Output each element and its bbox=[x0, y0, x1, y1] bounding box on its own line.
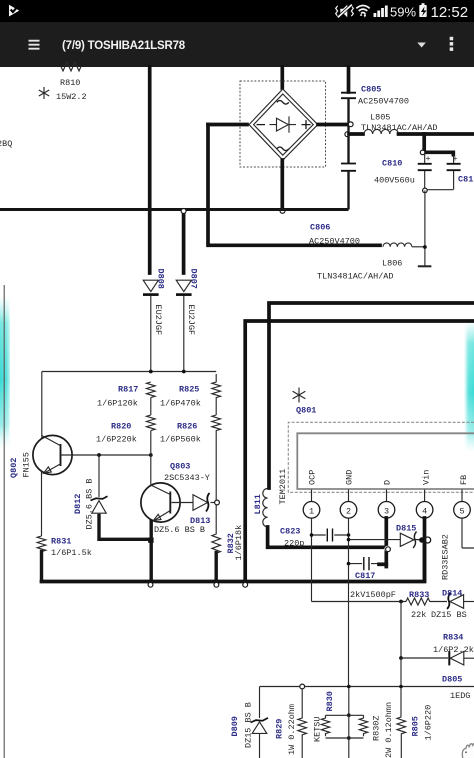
svg-text:D: D bbox=[383, 480, 393, 485]
IC Q801 body TEM2011 bbox=[297, 433, 474, 489]
node circle bridge bottom bbox=[280, 208, 285, 213]
wire: long horizontal rail y209.5 bbox=[0, 208, 349, 211]
svg-text:D809: D809 bbox=[230, 716, 240, 736]
node R834 rail bbox=[399, 656, 403, 660]
resistor R810 bbox=[56, 62, 87, 102]
terminal bar bbox=[418, 265, 432, 267]
svg-text:+: + bbox=[426, 154, 431, 164]
wire: pin1 down and right bbox=[312, 518, 407, 601]
node circle below C810 bbox=[423, 188, 428, 193]
pin circle 2 bbox=[340, 502, 357, 519]
capacitor C823 bbox=[280, 527, 350, 549]
svg-text:R820: R820 bbox=[111, 422, 131, 432]
svg-text:D812: D812 bbox=[73, 494, 83, 514]
svg-text:R830Z: R830Z bbox=[372, 715, 382, 741]
inductor L806 bbox=[317, 243, 427, 282]
asterisk Q801 bbox=[293, 388, 306, 403]
diode D812 zener bbox=[73, 455, 150, 539]
asterisk near R810 bbox=[39, 87, 49, 99]
node circle L805 left junction bbox=[345, 132, 350, 137]
svg-text:KETSU: KETSU bbox=[313, 716, 323, 742]
svg-text:D807: D807 bbox=[188, 269, 198, 289]
transistor Q802 bbox=[9, 435, 72, 536]
wire: box1 thick bend (L811 feed) bbox=[269, 303, 474, 488]
diode D815 zener bbox=[347, 524, 422, 549]
svg-text:59%: 59% bbox=[390, 4, 416, 19]
svg-text:FN155: FN155 bbox=[22, 452, 32, 478]
wire: pin3 thick bbox=[384, 518, 388, 567]
wire: box2 thick bend (Vin bus) bbox=[245, 321, 474, 580]
svg-text:C81: C81 bbox=[458, 175, 473, 185]
svg-text:AC250V4700: AC250V4700 bbox=[309, 237, 360, 247]
svg-text:22k: 22k bbox=[411, 610, 426, 620]
resistor R826 bbox=[160, 415, 221, 500]
svg-text:C817: C817 bbox=[355, 571, 375, 581]
svg-text:R834: R834 bbox=[443, 633, 463, 643]
svg-text:2SC5343-Y: 2SC5343-Y bbox=[164, 473, 210, 483]
capacitor C811 bbox=[425, 154, 474, 190]
capacitor C806 bbox=[309, 125, 360, 247]
diode on R834 rail bbox=[401, 633, 474, 666]
resistor R825 bbox=[160, 374, 221, 415]
resistor R817 bbox=[97, 382, 155, 415]
svg-text:(7/9) TOSHIBA21LSR78: (7/9) TOSHIBA21LSR78 bbox=[62, 40, 186, 52]
wire: thick drop + bar to C810/C811 bbox=[424, 134, 453, 152]
page border left bbox=[3, 285, 5, 758]
bridge internal diode bbox=[270, 116, 297, 132]
svg-text:RD33ESAB2: RD33ESAB2 bbox=[441, 534, 451, 580]
svg-text:1/6P18k: 1/6P18k bbox=[234, 525, 244, 561]
svg-text:C810: C810 bbox=[382, 159, 402, 169]
node circle bus/box2 wire bbox=[243, 582, 248, 587]
wire: thick bus y581.5 bbox=[42, 543, 425, 582]
wire: bridge left thick bbox=[208, 123, 247, 127]
svg-text:2BQ: 2BQ bbox=[0, 139, 12, 149]
svg-text:L806: L806 bbox=[382, 259, 402, 269]
wire: pin4 thick down bbox=[423, 518, 427, 581]
svg-text:1W 0.22ohm: 1W 0.22ohm bbox=[287, 704, 297, 755]
highlight streak left bbox=[0, 296, 10, 448]
hand cursor icon bbox=[462, 743, 474, 758]
diode D807 bbox=[176, 213, 198, 372]
svg-text:DZ5.6 BS B: DZ5.6 BS B bbox=[154, 525, 205, 535]
wire: L811 to pin3 thick bbox=[268, 527, 386, 547]
svg-text:R825: R825 bbox=[179, 385, 199, 395]
wire: R805 column bbox=[400, 658, 402, 717]
node D812 top bbox=[97, 453, 101, 457]
diode D808 bbox=[143, 269, 165, 372]
svg-text:FB: FB bbox=[459, 475, 469, 485]
wire: thick L down from bridge-left to C806 rail bbox=[208, 125, 380, 246]
node dot D815/pin4 bbox=[419, 537, 424, 542]
transistor Q803 bbox=[141, 455, 210, 581]
svg-text:DZ15 BS B: DZ15 BS B bbox=[244, 702, 254, 748]
svg-text:D814: D814 bbox=[442, 589, 462, 599]
svg-text:3: 3 bbox=[384, 506, 389, 516]
resistor R832 bbox=[212, 505, 244, 581]
bridge polarity marks bbox=[257, 101, 311, 151]
svg-text:220p: 220p bbox=[284, 539, 304, 549]
svg-text:1/6P470k: 1/6P470k bbox=[160, 399, 201, 409]
svg-text:OCP: OCP bbox=[308, 470, 318, 485]
bridge rectifier dashed box bbox=[240, 81, 326, 167]
node circle D813/R832 bbox=[215, 500, 220, 505]
svg-text:Q802: Q802 bbox=[9, 458, 19, 478]
wire: Q802 base rail y455 bbox=[62, 454, 151, 456]
STATUSBAR bbox=[0, 0, 474, 22]
IC Q801 dotted outline bbox=[288, 422, 474, 492]
svg-text:1EDG: 1EDG bbox=[450, 691, 470, 701]
highlight streak right bbox=[464, 320, 474, 452]
node circle D815/pin4 bbox=[425, 537, 431, 543]
svg-text:R830: R830 bbox=[325, 691, 335, 711]
resistor R831 bbox=[37, 536, 92, 581]
node D807/rail bbox=[182, 370, 186, 374]
svg-text:2W 0.12ohmn: 2W 0.12ohmn bbox=[384, 702, 394, 758]
svg-text:Vin: Vin bbox=[422, 470, 432, 485]
svg-text:1/6P120k: 1/6P120k bbox=[97, 399, 138, 409]
svg-text:1/6P2.2k: 1/6P2.2k bbox=[433, 645, 474, 655]
svg-text:Q803: Q803 bbox=[170, 462, 190, 472]
svg-text:D815: D815 bbox=[396, 524, 416, 534]
wire: thick vertical to D808 bbox=[148, 67, 152, 273]
svg-text:1/6P560k: 1/6P560k bbox=[160, 435, 201, 445]
svg-text:C805: C805 bbox=[361, 85, 381, 95]
junction square dot bbox=[148, 538, 153, 543]
capacitor C805 bbox=[341, 85, 409, 125]
svg-text:TLN3481AC/AH/AD: TLN3481AC/AH/AD bbox=[361, 123, 438, 133]
pin stubs bbox=[312, 490, 463, 502]
wire: pin2 down bbox=[348, 518, 350, 686]
diode D809 zener bbox=[230, 687, 268, 758]
wire: horizontal rail y686.5 bbox=[260, 686, 474, 688]
svg-text:R826: R826 bbox=[177, 422, 197, 432]
svg-text:C806: C806 bbox=[310, 223, 330, 233]
svg-text:C823: C823 bbox=[280, 527, 300, 537]
svg-text:+: + bbox=[453, 154, 458, 164]
svg-text:15W2.2: 15W2.2 bbox=[56, 92, 87, 102]
svg-text:R833: R833 bbox=[409, 590, 429, 600]
svg-text:D805: D805 bbox=[442, 675, 462, 685]
wire: thin vertical to terminal bbox=[424, 190, 426, 265]
svg-text:5: 5 bbox=[460, 506, 465, 516]
diode D813 zener bbox=[154, 493, 215, 535]
svg-text:GND: GND bbox=[345, 470, 355, 485]
resistor R820 bbox=[96, 415, 155, 455]
TOOLBAR bbox=[0, 22, 474, 67]
pin circle 1 bbox=[303, 502, 320, 519]
svg-text:1/6P1.5k: 1/6P1.5k bbox=[51, 548, 92, 558]
diode D814 zener bbox=[431, 589, 474, 621]
svg-text:EU2JGF: EU2JGF bbox=[153, 305, 163, 336]
resistor R805 bbox=[397, 705, 434, 758]
svg-text:TEM2011: TEM2011 bbox=[278, 469, 288, 505]
svg-text:400V560u: 400V560u bbox=[374, 176, 415, 186]
resistor R833 bbox=[406, 590, 447, 620]
node D808/rail bbox=[149, 370, 153, 374]
svg-text:R829: R829 bbox=[275, 719, 285, 739]
svg-text:4: 4 bbox=[422, 506, 427, 516]
svg-text:12:52: 12:52 bbox=[431, 4, 469, 21]
pin circle 4 bbox=[416, 502, 433, 519]
svg-text:EU2JGF: EU2JGF bbox=[186, 305, 196, 336]
svg-text:L805: L805 bbox=[370, 113, 390, 123]
svg-text:2: 2 bbox=[346, 506, 351, 516]
wire: drop to R834 rail bbox=[400, 602, 402, 659]
wire: horizontal rail y371.5 bbox=[42, 371, 216, 373]
wire: bridge right thick to C805 column bbox=[318, 123, 349, 127]
svg-text:AC250V4700: AC250V4700 bbox=[358, 97, 409, 107]
node circle bus/R832 bbox=[214, 582, 219, 587]
svg-text:L811: L811 bbox=[253, 494, 263, 514]
pin circle 5 bbox=[454, 502, 471, 519]
svg-text:R817: R817 bbox=[118, 385, 138, 395]
svg-text:R805: R805 bbox=[411, 716, 421, 736]
node circle pin3/L811 bbox=[385, 546, 390, 551]
node circle C805 bottom junction bbox=[348, 122, 353, 127]
inductor L811 bbox=[253, 489, 268, 527]
capacitor C810 bbox=[374, 153, 432, 191]
wire: thick vertical bridge top bbox=[280, 67, 284, 88]
wire: pin5 down and right bbox=[462, 518, 474, 548]
node circle bus/Q803 emitter bbox=[148, 582, 153, 587]
wire: bridge bottom thick bbox=[280, 160, 284, 208]
wire: Q802 collector bbox=[41, 372, 43, 439]
node R820 bottom bbox=[149, 453, 153, 457]
resistor pair R830 bbox=[313, 685, 395, 758]
resistor R829 bbox=[275, 684, 307, 758]
node pin1-rail/R833 bbox=[399, 600, 403, 604]
svg-text:2kV1500pF: 2kV1500pF bbox=[350, 590, 396, 600]
wire: thick vertical C805 column top bbox=[347, 67, 351, 92]
svg-text:1/6P220: 1/6P220 bbox=[424, 705, 434, 741]
svg-text:R831: R831 bbox=[51, 537, 71, 547]
bridge rectifier diamond bbox=[249, 89, 318, 160]
pin circle 3 bbox=[378, 502, 395, 519]
svg-text:D808: D808 bbox=[155, 269, 165, 289]
capacitor C817 bbox=[347, 557, 396, 600]
svg-text:Q801: Q801 bbox=[296, 406, 316, 416]
inductor L805 bbox=[349, 113, 474, 135]
svg-text:1: 1 bbox=[309, 506, 314, 516]
svg-text:TLN3481AC/AH/AD: TLN3481AC/AH/AD bbox=[317, 272, 394, 282]
svg-text:DZ15 BS: DZ15 BS bbox=[431, 610, 467, 620]
svg-text:R810: R810 bbox=[60, 78, 80, 88]
svg-text:1/6P220k: 1/6P220k bbox=[96, 435, 137, 445]
svg-text:DZ5.6 BS B: DZ5.6 BS B bbox=[85, 478, 95, 529]
node circle D807 top bbox=[181, 209, 186, 214]
